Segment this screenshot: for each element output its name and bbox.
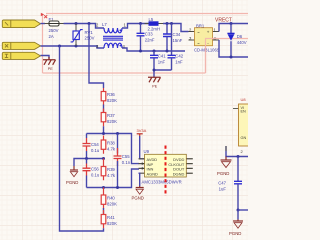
svg-text:C54: C54 bbox=[91, 142, 99, 147]
svg-text:C34: C34 bbox=[173, 32, 181, 37]
chassis ground PE (right) bbox=[148, 77, 161, 88]
common-mode choke L7 bbox=[96, 22, 127, 49]
capacitor C47 bbox=[218, 157, 242, 211]
svg-text:PE: PE bbox=[48, 67, 53, 71]
svg-text:+: + bbox=[207, 30, 210, 35]
svg-text:R39: R39 bbox=[107, 167, 115, 172]
svg-text:820K: 820K bbox=[107, 221, 117, 226]
fuse F1 bbox=[45, 17, 64, 39]
resistor R41 bbox=[101, 210, 117, 228]
junction C34 bottom bbox=[166, 50, 169, 53]
svg-text:EN: EN bbox=[241, 110, 247, 114]
svg-text:PGND: PGND bbox=[217, 171, 229, 176]
svg-text:D6: D6 bbox=[237, 34, 243, 39]
wire R41 bottom to N rail bbox=[60, 46, 104, 231]
varistor RV1 bbox=[71, 24, 95, 47]
svg-text:U9: U9 bbox=[144, 149, 150, 154]
svg-text:820K: 820K bbox=[107, 98, 117, 103]
svg-text:4.7k: 4.7k bbox=[107, 146, 116, 151]
junction N rail / RV1 bbox=[75, 45, 78, 48]
inductor L5 bbox=[145, 17, 164, 32]
svg-text:~: ~ bbox=[197, 41, 200, 46]
junction D6 bottom bbox=[230, 56, 233, 59]
svg-text:0.1u: 0.1u bbox=[91, 148, 100, 153]
wire L5 to bridge bbox=[163, 24, 189, 32]
junction C34 top bbox=[166, 22, 169, 25]
junction node A R38 bbox=[102, 132, 105, 135]
svg-text:0.1n: 0.1n bbox=[122, 160, 131, 165]
chassis ground PE (left) bbox=[43, 57, 56, 71]
port P1 (line) bbox=[2, 20, 40, 28]
svg-text:AGND: AGND bbox=[147, 171, 159, 176]
resistor R36 bbox=[101, 88, 117, 105]
wire AGND to PGND bbox=[139, 173, 140, 186]
junction bottom right bbox=[237, 209, 240, 212]
wire port P1 to F1 bbox=[41, 23, 46, 25]
capacitor C54 bbox=[83, 134, 100, 159]
wire C41/C42 bottoms to chassis bbox=[154, 70, 172, 77]
svg-text:R41: R41 bbox=[107, 215, 115, 220]
capacitor C33 bbox=[137, 24, 155, 52]
node C wire to INN bbox=[87, 169, 140, 188]
resistor R37 bbox=[101, 109, 117, 127]
power port 3V3A above AVDD bbox=[137, 128, 147, 136]
svg-text:DGND: DGND bbox=[173, 171, 185, 176]
wire to right edge bbox=[238, 209, 248, 211]
wire port P3 to chassis ground bbox=[41, 56, 50, 59]
svg-text:L5: L5 bbox=[149, 17, 154, 22]
svg-text:R37: R37 bbox=[107, 113, 115, 118]
svg-text:PGND: PGND bbox=[132, 196, 144, 201]
svg-text:L7: L7 bbox=[102, 22, 107, 27]
svg-text:PGND: PGND bbox=[66, 180, 78, 185]
svg-text:U8: U8 bbox=[241, 97, 247, 102]
pink blanket corner over bridge bbox=[206, 39, 218, 74]
resistor R38 bbox=[101, 136, 116, 154]
TVS diode D6 bbox=[227, 24, 246, 58]
capacitor C56 bbox=[83, 159, 100, 188]
port P2 (neutral) bbox=[2, 42, 40, 49]
wire U8 pin down to PGND rail bbox=[226, 146, 248, 157]
pin number stub bbox=[225, 146, 227, 151]
port P3 (PE) bbox=[2, 52, 40, 59]
svg-text:2.2mH: 2.2mH bbox=[148, 27, 161, 32]
capacitor C41 bbox=[150, 51, 166, 70]
svg-text:1uF: 1uF bbox=[219, 187, 227, 192]
svg-text:1nF: 1nF bbox=[175, 60, 183, 65]
resistor R39 bbox=[101, 159, 116, 181]
junction L rail / RV1 bbox=[75, 22, 78, 25]
wire R36-R37 bbox=[103, 105, 105, 114]
svg-text:R36: R36 bbox=[107, 92, 115, 97]
junction N rail / divider return bbox=[58, 45, 61, 48]
wire L rail fuse to choke bbox=[64, 24, 105, 29]
junction C33 top bbox=[139, 22, 142, 25]
power ground PGND (left) bbox=[70, 166, 78, 177]
wire R40-R41 bbox=[103, 208, 105, 215]
compile mask marker bbox=[41, 13, 47, 18]
svg-text:PE: PE bbox=[152, 85, 157, 89]
bridge rectifier BR1 bbox=[189, 24, 220, 53]
junction node C R39/R40 bbox=[102, 186, 105, 189]
svg-text:VRECT: VRECT bbox=[215, 18, 232, 24]
svg-text:1nF: 1nF bbox=[158, 60, 166, 65]
wire BR1 pin4 to lower right rail bbox=[219, 40, 248, 57]
isolation barrier dashed line bbox=[165, 146, 167, 197]
svg-text:R38: R38 bbox=[107, 140, 115, 145]
svg-text:C41: C41 bbox=[158, 54, 166, 59]
svg-text:PGND: PGND bbox=[229, 231, 241, 236]
svg-text:C47: C47 bbox=[218, 181, 226, 186]
junction L rail / divider tap bbox=[88, 22, 91, 25]
svg-text:C33: C33 bbox=[145, 32, 153, 37]
wire divider tap down from L rail bbox=[89, 24, 104, 89]
svg-text:R40: R40 bbox=[107, 195, 115, 200]
resistor R40 bbox=[101, 188, 117, 209]
junction node B C54/C56 bbox=[85, 157, 88, 160]
capacitor C42 bbox=[168, 24, 184, 71]
node B wire to PGND bbox=[74, 159, 104, 167]
junction node B R38/R39 bbox=[102, 157, 105, 160]
svg-text:4.7k: 4.7k bbox=[107, 173, 116, 178]
svg-text:C42: C42 bbox=[175, 54, 183, 59]
svg-text:15nF: 15nF bbox=[173, 38, 183, 43]
svg-text:3V3A: 3V3A bbox=[137, 128, 147, 133]
svg-text:820K: 820K bbox=[107, 201, 117, 206]
svg-text:AMC1333M05DWVR: AMC1333M05DWVR bbox=[142, 180, 182, 185]
IC U8 (cut off at right edge) bbox=[233, 104, 251, 146]
junction D6 top bbox=[230, 22, 233, 25]
svg-text:C56: C56 bbox=[91, 167, 99, 172]
svg-text:C55: C55 bbox=[122, 154, 130, 159]
capacitor C55 bbox=[114, 134, 131, 188]
junction C42 top bbox=[170, 22, 173, 25]
svg-text:CD-MBL106S: CD-MBL106S bbox=[194, 48, 220, 53]
svg-text:~: ~ bbox=[197, 30, 200, 35]
svg-text:440V: 440V bbox=[237, 40, 247, 45]
svg-text:22nF: 22nF bbox=[145, 38, 155, 43]
svg-text:820K: 820K bbox=[107, 119, 117, 124]
wire AVDD bbox=[140, 136, 145, 159]
junction C41 top bbox=[153, 50, 156, 53]
junction chassis tap bbox=[153, 69, 156, 72]
svg-text:GN: GN bbox=[241, 136, 247, 140]
isolated modulator U9 bbox=[139, 149, 193, 185]
wire choke top right to L rail bbox=[122, 24, 149, 29]
junction C33 bottom bbox=[139, 50, 142, 53]
power ground PGND (below U9) bbox=[136, 186, 144, 194]
wire choke bottom right to lower rail bbox=[122, 48, 185, 51]
junction node C C55 bbox=[116, 186, 119, 189]
power ground PGND (bottom right) bbox=[233, 220, 243, 229]
wire R37 to node A / INP bbox=[87, 126, 140, 163]
junction node A C55 bbox=[116, 132, 119, 135]
svg-text:250V: 250V bbox=[49, 28, 59, 33]
svg-text:2A: 2A bbox=[49, 34, 54, 39]
power ground PGND (right of U9) bbox=[221, 157, 232, 168]
pink blanket region outline bbox=[43, 14, 249, 74]
capacitor C34 bbox=[163, 24, 183, 52]
wire N rail port2 to choke bbox=[41, 46, 105, 48]
wire BR1 pin1 to VRECT rail bbox=[219, 24, 248, 32]
wire down to PGND bbox=[237, 210, 239, 220]
junction C47 top bbox=[237, 155, 240, 158]
svg-text:0.1u: 0.1u bbox=[91, 173, 100, 178]
